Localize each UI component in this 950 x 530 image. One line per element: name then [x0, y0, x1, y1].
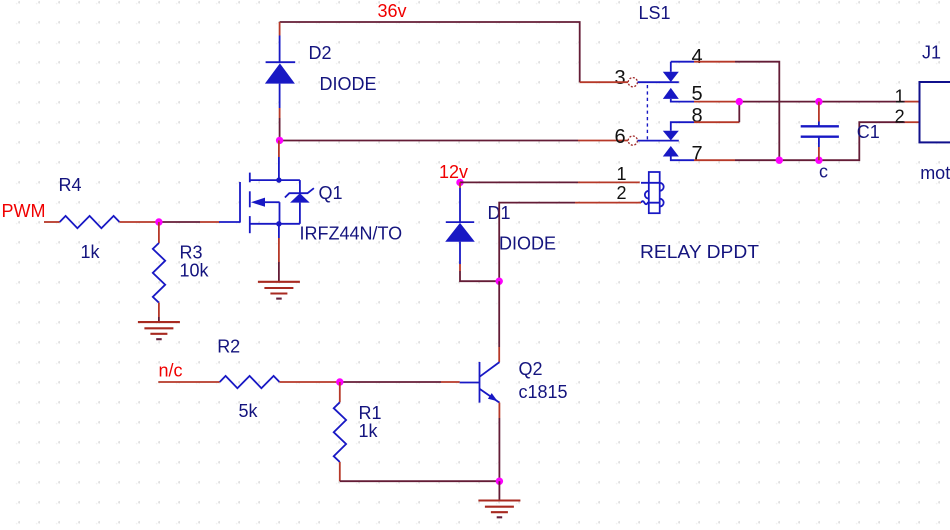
svg-text:3: 3 — [615, 67, 626, 89]
ground under R3 — [138, 322, 180, 339]
svg-text:1: 1 — [895, 86, 905, 106]
svg-text:C1: C1 — [857, 122, 880, 142]
svg-text:1k: 1k — [81, 242, 101, 262]
pin 7 red pin segment — [694, 159, 735, 161]
resistor R4 pin right — [120, 221, 159, 223]
svg-text:Q1: Q1 — [319, 183, 343, 203]
svg-text:1: 1 — [617, 164, 627, 184]
pin 6 circle — [628, 136, 637, 145]
resistor R1 pin top — [339, 382, 341, 402]
svg-text:5k: 5k — [239, 401, 259, 421]
junction C1 bottom — [815, 157, 822, 164]
Q2 collector pin segment — [498, 347, 500, 362]
capacitor C1 — [801, 102, 839, 161]
wire collector node down — [498, 281, 500, 347]
svg-text:36v: 36v — [378, 1, 407, 21]
svg-text:n/c: n/c — [159, 361, 183, 381]
svg-text:J1: J1 — [922, 42, 941, 62]
pin 5 red pin segment — [694, 101, 739, 103]
wire gate net — [159, 221, 200, 223]
resistor R2 pin left — [158, 381, 219, 383]
junction pin4 rail — [776, 157, 783, 164]
pin 5 lead — [671, 99, 694, 102]
svg-text:RELAY DPDT: RELAY DPDT — [640, 242, 759, 262]
ground under Q1 — [258, 282, 300, 299]
wire Q2 emitter down — [498, 418, 500, 481]
wire emitter rail — [340, 480, 500, 482]
svg-text:R3: R3 — [180, 243, 203, 263]
svg-text:R4: R4 — [59, 175, 82, 195]
wire R3 to ground — [158, 317, 160, 322]
wire base net — [340, 381, 441, 383]
junction C1 top — [815, 98, 822, 105]
diode D1 — [445, 182, 475, 271]
Q1 gate pin segment — [200, 221, 219, 223]
relay coil pin1 segment — [578, 181, 640, 183]
wire pin8 up to pin5 net — [738, 102, 740, 123]
wire pin5 net to J1 pin1 — [739, 101, 905, 103]
resistor R3 pin bottom — [158, 303, 160, 317]
pin 4 lead — [671, 61, 694, 63]
pin 8 red pin segment — [694, 121, 739, 123]
transistor Q2 — [460, 362, 500, 403]
wire node to relay pin6 — [280, 140, 578, 142]
Q2 emitter pin segment — [498, 403, 500, 418]
wire Q1 source to ground — [278, 262, 280, 282]
wire D1 anode down and right — [460, 271, 499, 281]
dashed link line — [646, 85, 648, 141]
svg-text:1k: 1k — [359, 421, 379, 441]
resistor R1 — [334, 402, 346, 462]
pin 3 circle — [628, 78, 637, 87]
transistor Q1 — [219, 140, 314, 233]
junction drain node — [276, 137, 283, 144]
junction emitter node — [496, 478, 503, 485]
svg-text:PWM: PWM — [2, 201, 46, 221]
junction pin8/pin5 — [736, 98, 743, 105]
relay coil LS1 — [641, 172, 664, 213]
svg-text:8: 8 — [692, 105, 703, 127]
ground under Q2 — [478, 501, 520, 518]
resistor R4 pin left — [44, 221, 60, 223]
pin 3 red pin segment — [580, 81, 628, 83]
svg-text:10k: 10k — [180, 261, 210, 281]
junction 12v node — [456, 179, 463, 186]
svg-text:motor: motor — [920, 163, 950, 183]
resistor R2 — [220, 376, 280, 388]
pin 8 lead — [671, 122, 694, 131]
svg-text:12v: 12v — [439, 162, 468, 182]
resistor R3 — [153, 243, 165, 303]
contact arrow down pole1 — [663, 72, 679, 82]
wire pin7 bottom rail — [735, 122, 905, 160]
contact stem pole1 — [670, 62, 672, 72]
svg-text:R1: R1 — [359, 403, 382, 423]
svg-text:IRFZ44N/TO: IRFZ44N/TO — [300, 224, 403, 244]
svg-text:2: 2 — [617, 183, 627, 203]
wire coil pin2 to Q2 collector — [499, 203, 575, 282]
contact arrow up pole2 — [663, 146, 679, 157]
wire to bottom ground — [498, 481, 500, 500]
svg-text:7: 7 — [692, 143, 703, 165]
svg-text:2: 2 — [895, 106, 905, 126]
svg-text:c: c — [819, 162, 828, 182]
wire 12v rail — [460, 181, 578, 183]
svg-text:DIODE: DIODE — [499, 234, 556, 254]
svg-text:LS1: LS1 — [639, 3, 671, 23]
resistor R4 — [60, 216, 120, 228]
wire J1 pin2 stub — [905, 121, 920, 123]
relay coil pin2 segment — [575, 202, 641, 204]
wire D2 anode to node — [279, 118, 281, 140]
connector J1 — [920, 82, 950, 142]
pin 6 red pin segment — [578, 140, 628, 142]
svg-text:R2: R2 — [217, 337, 240, 357]
wire 36v top rail — [280, 22, 580, 82]
resistor R1 pin bottom — [339, 462, 341, 481]
wire J1 pin1 stub — [905, 101, 920, 103]
Q2 base pin segment — [441, 381, 460, 383]
pin 7 lead — [671, 157, 694, 161]
svg-text:c1815: c1815 — [519, 382, 568, 402]
junction collector node — [496, 278, 503, 285]
Q1 source pin — [278, 224, 280, 238]
svg-text:DIODE: DIODE — [320, 74, 377, 94]
wire pin4 to bottom rail — [735, 62, 779, 161]
svg-text:Q2: Q2 — [519, 359, 543, 379]
pin 6 lead — [638, 140, 679, 142]
diode D2 — [265, 22, 295, 118]
junction gate node — [155, 218, 162, 225]
svg-text:4: 4 — [692, 46, 703, 68]
resistor R3 pin top — [158, 222, 160, 243]
svg-text:D2: D2 — [309, 43, 332, 63]
contact arrow down pole2 — [663, 131, 679, 141]
junction base node — [336, 378, 343, 385]
resistor R2 pin right — [280, 381, 340, 383]
contact arrow up pole1 — [663, 88, 679, 99]
pin 3 lead — [638, 81, 679, 83]
pin 4 red pin segment — [694, 61, 735, 63]
svg-text:6: 6 — [615, 126, 626, 148]
